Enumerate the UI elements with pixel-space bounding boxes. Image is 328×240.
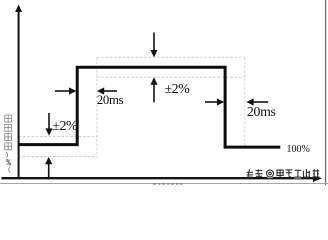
tiny clipped caption below x-axis [0, 0, 328, 185]
dashed tolerance band: top upper limit [97, 56, 245, 58]
x-axis line [2, 177, 317, 179]
arrow down to top upper limit [153, 33, 155, 52]
arrow down to lower upper limit [48, 113, 50, 129]
dashed tolerance band: lower lower limit [19, 156, 97, 158]
watermark 头条@电子工程世界 drawn as vector strokes [0, 0, 328, 185]
y-axis line [18, 10, 20, 178]
fall 20ms measure: right arrow [253, 101, 268, 103]
waveform trace [19, 67, 281, 147]
dashed vertical: 20ms after falling edge [244, 57, 246, 147]
x-axis arrowhead [313, 175, 322, 182]
rise 20ms measure: left arrow [55, 90, 71, 92]
dashed tolerance band: lower upper limit [19, 135, 97, 137]
arrow up from x-axis to lower lower limit [48, 164, 50, 178]
fall 20ms measure: left arrow [205, 101, 219, 103]
y-axis arrowhead [15, 5, 22, 13]
right border [325, 0, 327, 185]
rise 20ms measure: right arrow [104, 90, 118, 92]
bottom border [0, 182, 328, 184]
arrow up to top lower limit [153, 85, 155, 103]
dashed vertical: 20ms after rising edge [96, 57, 98, 156]
dashed tolerance band: top lower limit [97, 76, 245, 78]
y-axis label 电压幅值(%) drawn as vector strokes (vertical) [0, 0, 328, 185]
